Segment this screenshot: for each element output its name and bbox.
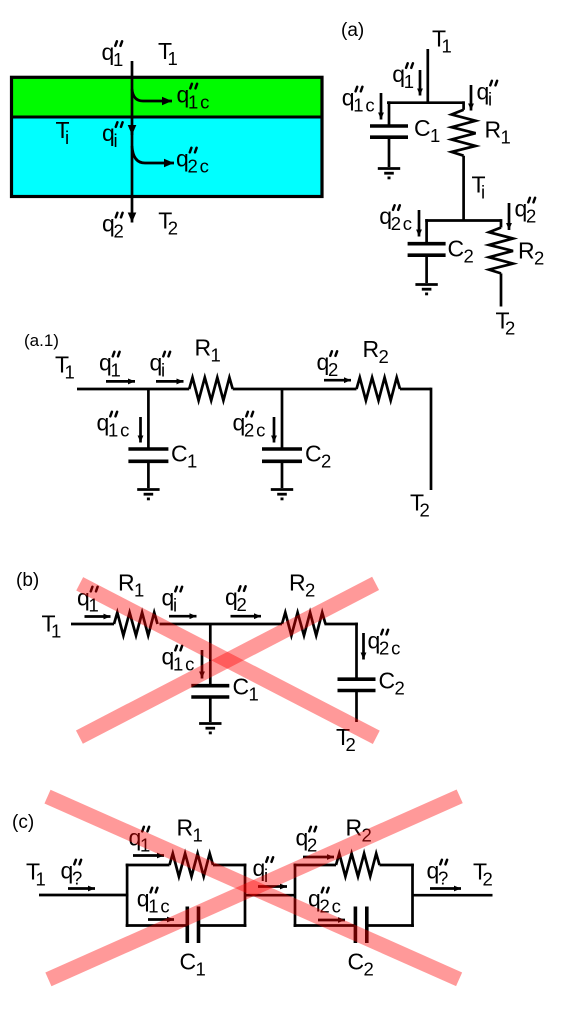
svg-text:1: 1 <box>51 621 63 642</box>
svg-text:R: R <box>177 815 194 841</box>
svg-text:2c: 2c <box>379 638 402 659</box>
svg-text:R: R <box>485 117 502 143</box>
svg-text:1: 1 <box>168 48 180 69</box>
svg-text:1: 1 <box>404 71 416 92</box>
svg-text:2c: 2c <box>188 156 211 177</box>
svg-text:R: R <box>195 335 212 361</box>
svg-text:C: C <box>180 949 197 975</box>
svg-text:R: R <box>363 336 380 362</box>
svg-text:1: 1 <box>134 580 146 601</box>
svg-text:2: 2 <box>328 359 340 380</box>
svg-text:(a): (a) <box>341 20 364 41</box>
svg-text:1: 1 <box>113 49 125 70</box>
svg-text:2: 2 <box>483 869 495 890</box>
svg-text:2: 2 <box>505 318 517 339</box>
svg-text:i: i <box>481 182 487 203</box>
svg-text:2: 2 <box>534 248 546 269</box>
svg-text:2: 2 <box>379 346 391 367</box>
svg-text:1: 1 <box>36 869 48 890</box>
svg-text:C: C <box>171 441 188 467</box>
svg-text:C: C <box>414 115 431 141</box>
svg-text:2c: 2c <box>244 420 267 441</box>
svg-text:1: 1 <box>65 362 77 383</box>
svg-text:2: 2 <box>168 218 180 239</box>
svg-text:1c: 1c <box>353 95 376 116</box>
svg-text:C: C <box>348 949 365 975</box>
svg-text:i: i <box>65 127 71 148</box>
svg-text:i: i <box>161 360 167 381</box>
svg-text:1: 1 <box>430 125 442 146</box>
svg-text:1c: 1c <box>108 420 131 441</box>
svg-text:R: R <box>118 570 135 596</box>
svg-text:2: 2 <box>420 500 432 521</box>
svg-text:1: 1 <box>193 825 205 846</box>
svg-text:1: 1 <box>111 360 123 381</box>
svg-text:2: 2 <box>364 959 376 980</box>
svg-text:(c): (c) <box>12 812 34 833</box>
svg-text:i: i <box>114 130 120 151</box>
svg-text:R: R <box>518 238 535 264</box>
svg-text:C: C <box>379 668 396 694</box>
svg-text:1: 1 <box>249 684 261 705</box>
svg-text:1c: 1c <box>188 92 211 113</box>
svg-text:1: 1 <box>196 959 208 980</box>
svg-text:2c: 2c <box>391 213 414 234</box>
svg-text:C: C <box>305 441 322 467</box>
svg-text:?: ? <box>72 868 84 889</box>
svg-text:1: 1 <box>211 345 223 366</box>
svg-text:2: 2 <box>346 734 358 755</box>
svg-text:2: 2 <box>321 451 333 472</box>
svg-text:R: R <box>289 570 306 596</box>
svg-text:1: 1 <box>442 36 454 57</box>
svg-text:2: 2 <box>237 594 249 615</box>
svg-text:i: i <box>173 595 179 616</box>
svg-text:2: 2 <box>395 678 407 699</box>
svg-text:(b): (b) <box>16 570 39 591</box>
svg-text:2: 2 <box>305 580 317 601</box>
svg-text:?: ? <box>438 868 450 889</box>
svg-text:1: 1 <box>501 127 513 148</box>
svg-text:2: 2 <box>464 246 476 267</box>
svg-text:1: 1 <box>187 451 199 472</box>
svg-text:(a.1): (a.1) <box>24 331 59 350</box>
svg-text:C: C <box>448 236 465 262</box>
svg-text:i: i <box>488 89 494 110</box>
svg-text:1c: 1c <box>148 896 171 917</box>
svg-text:2: 2 <box>526 206 538 227</box>
svg-text:2: 2 <box>114 221 126 242</box>
